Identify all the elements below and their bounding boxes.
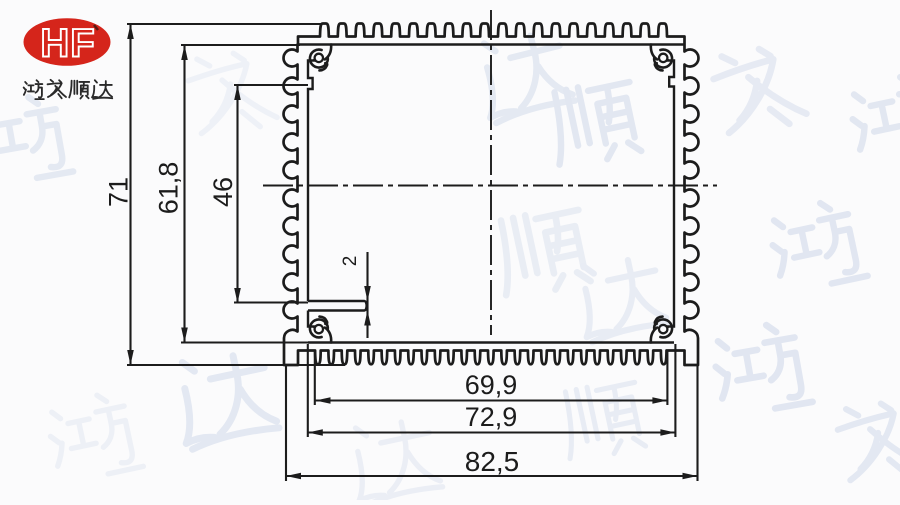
watermark characters [472,26,575,125]
dim line 46 [236,85,238,303]
extrusion profile outline [284,24,699,366]
logo ellipse [24,18,111,66]
top-left screw boss [310,45,331,71]
left wall inner surface with tab [308,59,314,301]
svg-text:61,8: 61,8 [154,162,184,215]
dim line 2 [366,252,368,338]
left wall inner below slot [308,311,314,329]
ext line 69.9 right [666,351,668,405]
ext line 69.9 left [314,351,316,405]
ext line 71 top [127,23,321,25]
svg-text:2: 2 [340,256,361,267]
dim line 61.8 [183,45,185,343]
ext line 46 bottom meeting slot top [234,301,308,303]
interior ceiling line [298,43,685,45]
ext line 82.5 right [696,366,698,481]
logo company name characters [24,80,44,99]
left PCB slot rail [308,301,367,311]
bottom-left screw boss [310,317,331,343]
top-right screw boss [651,45,672,71]
bottom-right screw boss [651,317,672,343]
ext line 61.8 bottom [181,341,345,343]
svg-text:71: 71 [104,177,134,207]
ext line 61.8 top [181,44,300,46]
dim line 71 [129,24,131,365]
ext line 82.5 left [285,366,287,481]
ext line 71 bottom [127,364,345,366]
svg-text:69,9: 69,9 [465,370,518,400]
horizontal centerline [263,185,717,187]
dim line 72.9 [308,431,676,433]
ext line 72.9 left [307,344,309,437]
dim line 69.9 [316,399,668,401]
right wall inner surface with tab [668,59,674,328]
svg-text:46: 46 [208,177,238,207]
ext line 46 top [234,84,308,86]
svg-text:HF: HF [40,22,95,66]
svg-text:82,5: 82,5 [465,446,520,477]
vertical centerline [490,10,492,335]
interior floor line [308,341,674,343]
ext line 72.9 right [674,344,676,437]
logo tick mark [94,25,98,30]
svg-text:72,9: 72,9 [465,402,518,432]
dim line 82.5 [286,475,698,477]
